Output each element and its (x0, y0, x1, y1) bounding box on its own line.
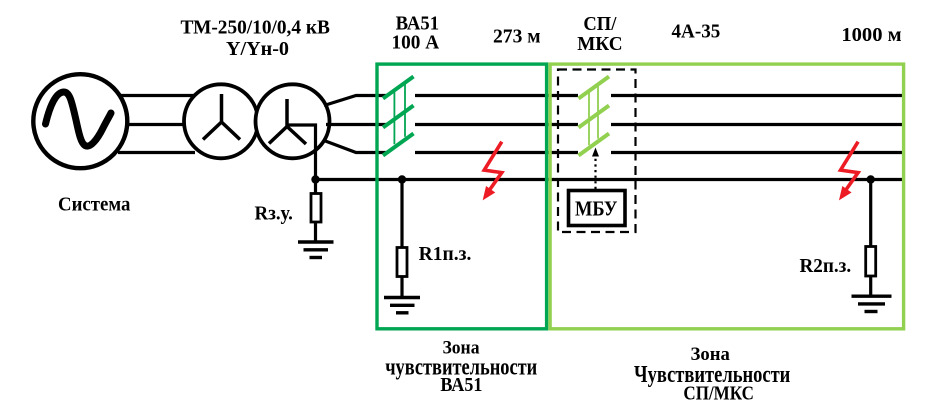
label Система (58, 193, 130, 215)
resistor R2п.з. (866, 247, 876, 277)
circuit breaker QF1 ВА51 (383, 77, 414, 156)
dashed enclosure СП/МКС (558, 70, 636, 233)
wire R2п.з. to ground (869, 276, 872, 296)
label СП/ (583, 13, 616, 35)
wire secondary neutral tap (287, 125, 316, 181)
wire phase B generator to transformer (122, 123, 195, 126)
label Зона Чувствительности СП/МКС (634, 344, 790, 404)
svg-text:Y/Yн-0: Y/Yн-0 (226, 38, 289, 60)
junction R2п.з. tap node (867, 175, 875, 183)
transformer T1 primary winding (Y) (184, 84, 258, 158)
label R1п.з. (419, 243, 472, 265)
neutral wire N bus (316, 178, 904, 181)
label Rз.у. (255, 203, 293, 225)
zone box ВА51 (dark green) (377, 64, 547, 329)
label Зона чувствительности ВА51 (385, 337, 537, 396)
svg-text:100 А: 100 А (392, 32, 440, 54)
fault lightning F2 (840, 142, 858, 199)
svg-text:273 м: 273 м (493, 26, 541, 48)
wire R1п.з. down lead (400, 180, 403, 250)
wire phase A fan from transformer (324, 96, 386, 106)
wire phase C generator to transformer (118, 151, 195, 154)
svg-text:R1п.з.: R1п.з. (419, 243, 472, 265)
label 273 м (493, 26, 541, 48)
wire phase A breaker1 to breaker2 (415, 94, 578, 97)
wire phase A generator to transformer (118, 94, 195, 97)
svg-text:МБУ: МБУ (575, 197, 618, 221)
wire R2п.з. down lead (869, 180, 872, 249)
resistor R1п.з. (397, 248, 407, 277)
dotted control arrow МБУ to QF2 (592, 148, 599, 190)
ground (Rз.у.) (298, 242, 334, 258)
ground (R1п.з.) (384, 298, 420, 313)
label R2п.з. (799, 255, 851, 277)
wire phase B from transformer (326, 123, 386, 126)
junction R1п.з. tap node (398, 175, 406, 183)
svg-text:СП/МКС: СП/МКС (683, 384, 754, 405)
wire phase C breaker1 to breaker2 (415, 151, 578, 154)
svg-text:МКС: МКС (577, 33, 622, 55)
svg-text:ТМ-250/10/0,4 кВ: ТМ-250/10/0,4 кВ (180, 17, 330, 39)
wire phase A breaker2 to end (611, 94, 903, 97)
svg-text:Система: Система (58, 193, 130, 215)
zone box СП/МКС (light green) (550, 64, 904, 329)
wire Rз.у. down lead (314, 180, 317, 196)
transformer T1 secondary winding (Yn) (256, 84, 330, 158)
control unit МБУ (569, 191, 626, 226)
ground (R2п.з.) (852, 296, 892, 311)
wire phase C fan from transformer (324, 141, 386, 153)
label ВА51 (396, 13, 440, 35)
generator G1 (system AC source) (33, 74, 127, 168)
wire phase B breaker1 to breaker2 (415, 123, 578, 126)
wire phase C breaker2 to end (611, 151, 903, 154)
label Y/Yн-0 (226, 38, 289, 60)
label ТМ-250/10/0,4 кВ (180, 17, 330, 39)
label МКС (577, 33, 622, 55)
resistor Rз.у. (311, 194, 321, 223)
wire R1п.з. to ground (400, 277, 403, 298)
label 100 А (392, 32, 440, 54)
svg-text:Rз.у.: Rз.у. (255, 203, 293, 225)
wire Rз.у. to ground (314, 222, 317, 242)
svg-text:R2п.з.: R2п.з. (799, 255, 851, 277)
svg-text:1000 м: 1000 м (841, 24, 901, 46)
label 1000 м (841, 24, 901, 46)
svg-text:4А-35: 4А-35 (672, 21, 721, 43)
svg-text:ВА51: ВА51 (440, 374, 482, 396)
fault lightning F1 (484, 142, 502, 199)
junction transformer neutral node (311, 175, 319, 183)
circuit breaker QF2 СП/МКС (579, 77, 610, 156)
label 4А-35 (672, 21, 721, 43)
wire phase B breaker2 to end (611, 123, 903, 126)
